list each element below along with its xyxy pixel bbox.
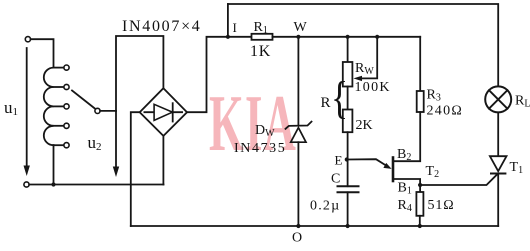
wire Rw branch (347, 37, 349, 62)
wire R3 riser (419, 37, 421, 91)
resistor R3 (417, 91, 424, 112)
tap 3 (54, 105, 64, 107)
node E junction (345, 157, 349, 161)
resistor R 2K (343, 110, 353, 133)
tap 1 (54, 67, 64, 69)
switch arm S (72, 91, 95, 109)
wire Rw to R (347, 87, 349, 110)
wire switch to bridge riser (100, 110, 116, 112)
wire top rail (228, 4, 498, 86)
svg-text:{: { (331, 72, 348, 123)
terminal top-left (25, 37, 30, 42)
watermark KIA (209, 80, 297, 169)
node zener-O junction (296, 224, 300, 228)
node C-O junction (346, 224, 350, 228)
UJT emitter arrowhead (383, 163, 391, 169)
thyristor T1 (490, 156, 507, 171)
tap 2 (54, 86, 64, 88)
wire coil bottom (53, 145, 55, 184)
wire E to UJT emitter (348, 159, 387, 166)
wire bridge right corner to node I (187, 37, 228, 112)
wire R to node E (347, 132, 349, 159)
node W junction (296, 35, 300, 39)
wire lamp to thyristor anode (497, 112, 499, 156)
diode inside bridge (144, 111, 182, 113)
svg-text:R: R (321, 95, 331, 111)
tap 4 (54, 125, 64, 127)
node Rw junction (346, 35, 350, 39)
lamp RL (485, 86, 511, 112)
wire bridge bottom corner (162, 136, 164, 185)
wire node I riser to top rail (227, 4, 229, 37)
terminal bottom-left (24, 182, 29, 187)
wire bottom-left (29, 184, 163, 186)
tap 5 (54, 144, 64, 146)
wire R1 to W rail (273, 36, 421, 38)
svg-text:51Ω: 51Ω (428, 198, 455, 213)
node R4-O junction (418, 224, 422, 228)
wire node I to R1 (228, 36, 252, 38)
u2 arrow (115, 111, 117, 168)
wiper arrowhead (353, 76, 362, 81)
svg-text:0.2µ: 0.2µ (310, 199, 340, 214)
wiper wire of Rw (361, 37, 377, 79)
zener diode Dw (286, 122, 312, 129)
transformer winding L1 (44, 68, 54, 146)
svg-text:I: I (233, 20, 237, 35)
svg-text:C: C (331, 172, 340, 187)
UJT T2 base bar (392, 158, 395, 182)
u1 arrow (26, 48, 28, 167)
svg-text:O: O (292, 231, 302, 246)
potentiometer Rw (343, 62, 353, 87)
wire top-left to coil (31, 39, 54, 67)
O rail (131, 225, 498, 227)
resistor R1 (252, 34, 273, 40)
svg-text:IN4735: IN4735 (234, 141, 286, 156)
svg-text:W: W (294, 20, 308, 35)
bridge rectifier (140, 88, 187, 136)
svg-text:240Ω: 240Ω (427, 104, 464, 119)
wire thyristor cathode to O rail (497, 174, 499, 227)
node wiper junction (375, 35, 379, 39)
capacitor C (347, 160, 349, 187)
wire riser to top AC of bridge (116, 36, 163, 111)
node B1 junction (418, 183, 422, 187)
svg-text:2K: 2K (356, 118, 373, 133)
wire bridge left corner to O rail (131, 112, 140, 226)
node I junction (226, 35, 230, 39)
svg-text:1K: 1K (250, 43, 271, 60)
svg-text:E: E (335, 153, 343, 168)
svg-text:IN4007×4: IN4007×4 (122, 18, 202, 35)
wire R3 to B2 (393, 112, 420, 161)
wire R4 branch (419, 185, 421, 192)
resistor R4 (416, 192, 423, 216)
wire B1 to thyristor gate (393, 174, 497, 185)
svg-text:100K: 100K (355, 80, 391, 95)
node coil bottom junction (51, 182, 55, 186)
wire zener branch (297, 37, 299, 126)
